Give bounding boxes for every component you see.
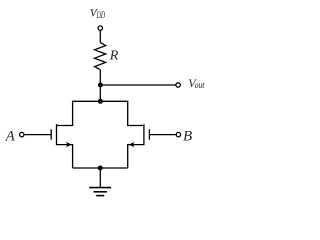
svg-text:DD: DD <box>96 11 105 21</box>
svg-text:A: A <box>5 129 16 145</box>
svg-text:R: R <box>109 49 119 64</box>
svg-text:B: B <box>183 129 192 145</box>
svg-text:out: out <box>195 80 205 90</box>
